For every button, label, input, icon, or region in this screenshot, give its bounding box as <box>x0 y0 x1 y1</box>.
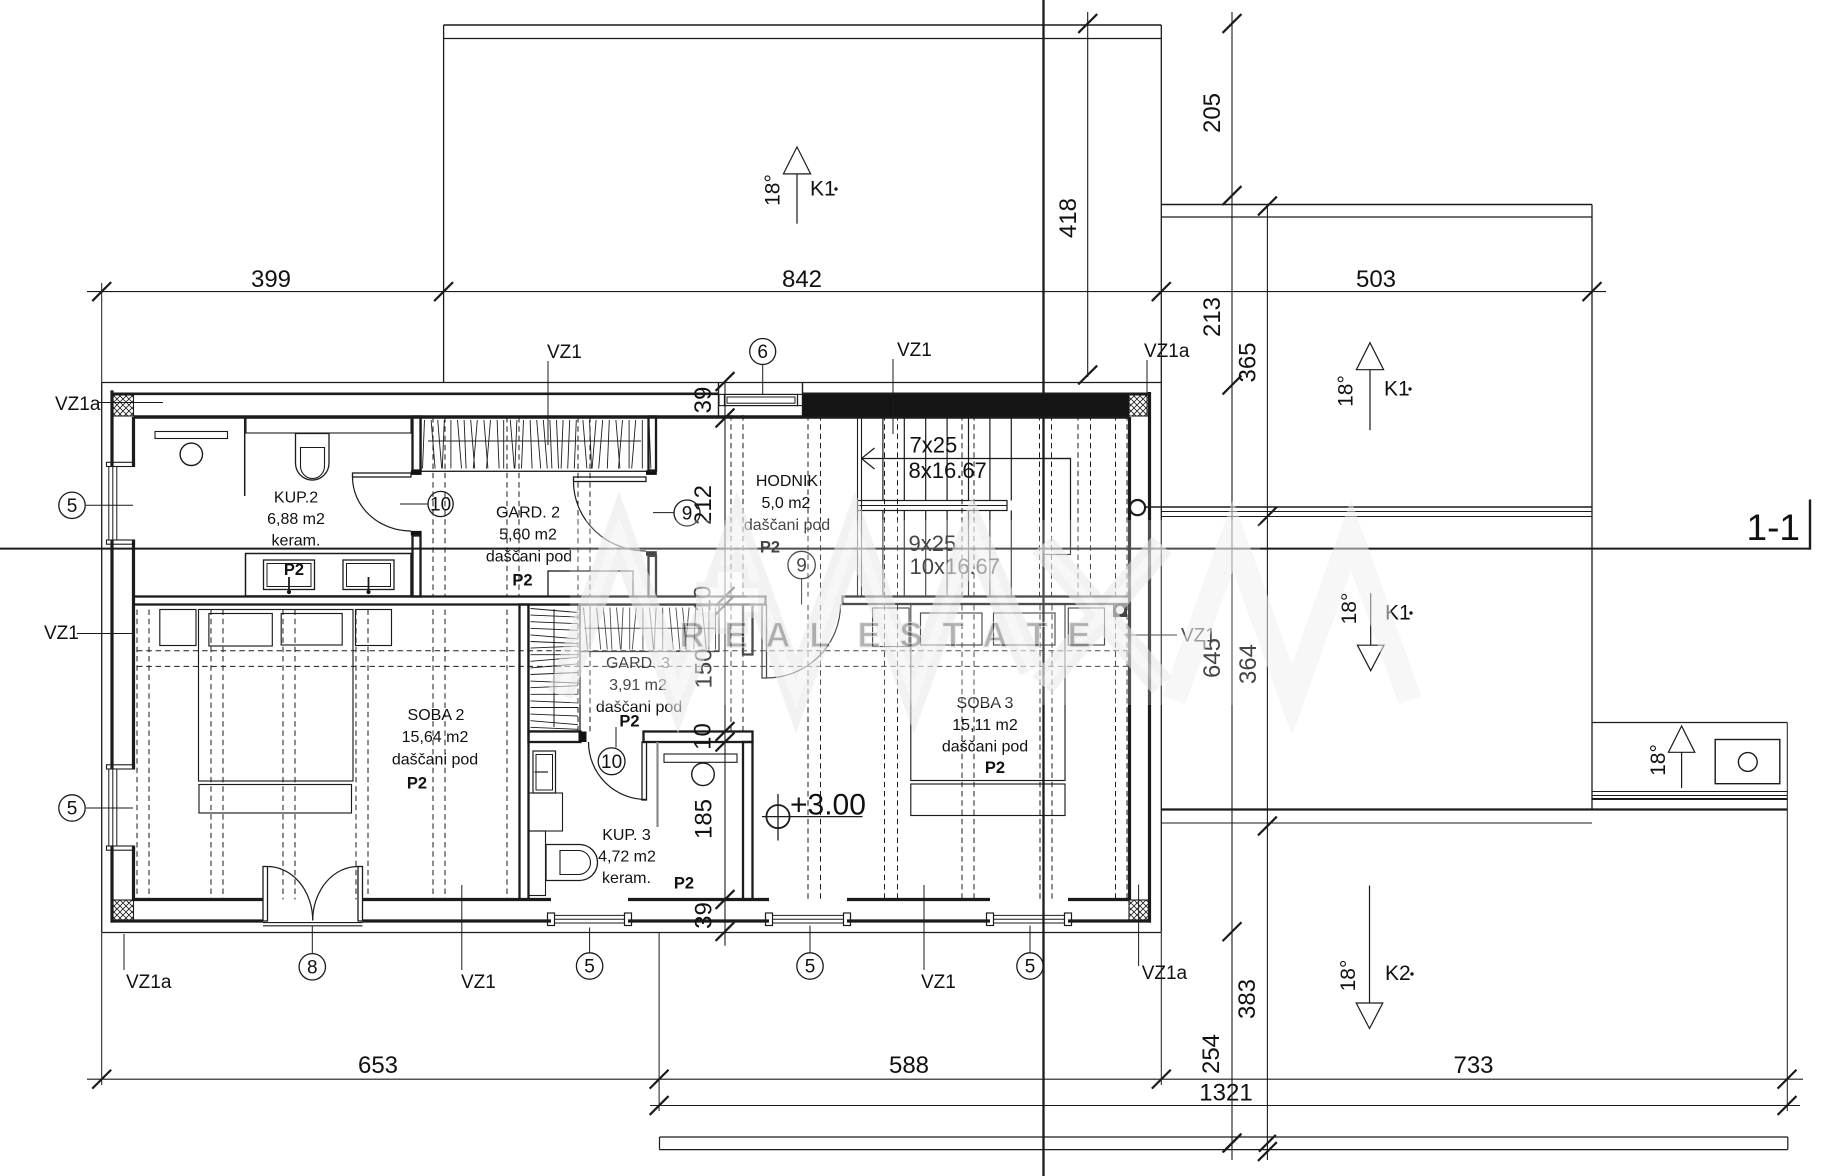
svg-text:VZ1a: VZ1a <box>1142 963 1188 984</box>
svg-text:10: 10 <box>430 495 451 516</box>
window in bottom wall (SOBA 3 right) <box>987 913 994 926</box>
svg-text:39: 39 <box>691 902 718 929</box>
french door sill SOBA 2 <box>263 922 363 924</box>
door GARD.3-KUP.3 leaf <box>642 742 647 800</box>
stairwell side rectangle right of section <box>1044 459 1071 555</box>
KUP.3 basin circle <box>692 763 715 786</box>
svg-text:8x16.67: 8x16.67 <box>909 458 987 483</box>
svg-text:254: 254 <box>1198 1034 1225 1074</box>
wall GARD.2 east lower <box>649 556 657 597</box>
svg-text:503: 503 <box>1356 266 1396 293</box>
svg-text:39: 39 <box>690 387 717 414</box>
top exterior wall inner face <box>134 415 1130 418</box>
KUP.2 toilet <box>296 434 330 481</box>
dimension line top horizontal <box>87 291 1606 293</box>
svg-text:HODNIK: HODNIK <box>756 473 819 490</box>
wall GARD.2 east upper <box>649 417 657 471</box>
svg-text:18°: 18° <box>1335 375 1358 407</box>
svg-text:5: 5 <box>67 799 78 820</box>
corner hatch top-right <box>1129 395 1150 416</box>
roof arrow K1 top rectangle <box>783 147 810 174</box>
svg-text:P2: P2 <box>512 572 532 590</box>
mark 5 bottom window 2 <box>797 953 823 979</box>
watermark logo <box>570 520 1260 705</box>
svg-text:399: 399 <box>251 266 291 293</box>
svg-text:1321: 1321 <box>1199 1080 1252 1107</box>
svg-text:daščani pod: daščani pod <box>942 739 1028 756</box>
chimney box <box>1715 740 1780 784</box>
svg-text:5: 5 <box>805 957 816 978</box>
stair left stringer lines <box>857 417 859 597</box>
svg-text:5: 5 <box>1025 957 1036 978</box>
svg-text:5: 5 <box>67 496 78 517</box>
mark 5 left lower window <box>59 795 85 821</box>
mark 10 door GARD.3 <box>598 748 625 775</box>
svg-text:VZ1: VZ1 <box>897 340 932 361</box>
svg-text:SOBA 2: SOBA 2 <box>408 707 465 724</box>
svg-text:VZ1a: VZ1a <box>55 394 101 415</box>
KUP.2 basin circle <box>180 443 202 465</box>
KUP.2 sink 1 <box>264 560 315 590</box>
svg-text:keram.: keram. <box>602 870 651 887</box>
SOBA2 bed <box>199 610 354 782</box>
right building roof rectangle <box>1161 204 1592 206</box>
mark 10 door KUP.2 <box>428 491 453 516</box>
KUP.3 cistern <box>529 831 546 896</box>
french door right leaf <box>358 867 363 922</box>
SOBA2 pillow 2 <box>281 614 342 646</box>
left exterior wall outer face <box>110 390 113 466</box>
stair lower flight risers <box>882 511 884 597</box>
svg-text:213: 213 <box>1199 297 1226 337</box>
roof outline upper-left large rectangle <box>444 24 1162 26</box>
SOBA3 bed <box>911 605 1065 781</box>
svg-text:T: T <box>1026 616 1047 655</box>
right building south wall lines <box>1146 506 1592 508</box>
svg-text:15,64 m2: 15,64 m2 <box>402 729 469 746</box>
door jamb block KUP.2 upper <box>411 470 422 475</box>
vertical dim line 365/364/383 <box>1266 204 1268 1160</box>
vertical dim line 205/213/645/254 <box>1231 12 1233 1160</box>
bottom exterior wall inner face <box>134 898 264 901</box>
right exterior wall inner face <box>1128 417 1131 900</box>
wall between KUP.2 and GARD.2 lower part <box>413 536 421 597</box>
roof overhang outline of main floor <box>102 382 1162 384</box>
stair upper flight risers <box>882 417 884 501</box>
dashed beam projection lines upper zone <box>432 417 434 597</box>
door KUP.2 swing arc <box>353 477 412 531</box>
mark 5 left upper window <box>59 492 85 518</box>
SOBA2 bench <box>199 785 352 814</box>
svg-text:4,72 m2: 4,72 m2 <box>598 849 656 866</box>
mark 8 french door <box>299 954 325 980</box>
svg-text:VZ1: VZ1 <box>547 342 582 363</box>
svg-text:588: 588 <box>889 1052 929 1079</box>
svg-text:P2: P2 <box>619 713 639 731</box>
SOBA2 nightstand left <box>160 610 196 646</box>
svg-text:VZ1: VZ1 <box>461 972 496 993</box>
SOBA3 bench <box>911 784 1065 816</box>
svg-text:S: S <box>899 616 922 655</box>
svg-text:K2: K2 <box>1385 962 1411 985</box>
svg-text:18°: 18° <box>1337 960 1360 992</box>
svg-text:365: 365 <box>1235 342 1262 382</box>
SOBA2 nightstand right <box>356 610 392 646</box>
SOBA3 pillow 2 <box>994 613 1056 645</box>
closet GARD.2 <box>421 418 656 472</box>
window in left wall lower (SOBA 2) <box>107 765 135 769</box>
right building bottom eave <box>1161 808 1787 810</box>
stair-area top wall solid fill <box>803 395 1130 417</box>
KUP.2 vanity counter <box>246 554 412 597</box>
door GARD.2 leaf <box>574 477 647 482</box>
mark 9 HODNIK <box>788 551 815 578</box>
wall HODNIK south (east of door) <box>843 597 1130 605</box>
door KUP.2 leaf <box>353 473 412 477</box>
right exterior wall outer face <box>1148 392 1151 923</box>
corner hatch bottom-left <box>112 900 134 921</box>
window in left wall upper (KUP.2) <box>107 462 135 466</box>
KUP.3 sink shelf <box>664 754 737 762</box>
svg-text:6: 6 <box>757 342 768 363</box>
bottom eave strip <box>660 1136 1788 1138</box>
mark 6 top window <box>750 339 776 365</box>
svg-text:418: 418 <box>1055 198 1082 238</box>
ticks on bottom eave strip <box>1224 1135 1241 1152</box>
svg-text:R: R <box>679 616 704 655</box>
dimension line 1321 <box>650 1105 1800 1107</box>
svg-text:VZ1a: VZ1a <box>126 972 172 993</box>
mark 9 door GARD.2 <box>674 500 700 526</box>
french door right arc <box>313 866 358 920</box>
SOBA3 pillow 1 <box>921 613 983 645</box>
svg-text:10: 10 <box>690 723 717 750</box>
door jamb GARD.2 lower <box>646 551 657 556</box>
wall band KUP.2+GARD.2 south <box>134 597 766 605</box>
SOBA3 nightstand top <box>873 608 910 647</box>
window 6 in top wall <box>718 383 720 417</box>
stair walking line with arrow <box>862 458 1071 460</box>
vertical dim line 418 <box>1087 12 1089 377</box>
top exterior wall outer face <box>111 392 719 395</box>
svg-text:18°: 18° <box>1647 744 1670 776</box>
KUP.3 washing machine <box>533 751 556 793</box>
door GARD.3-KUP.3 swing arc <box>589 742 647 800</box>
left exterior wall inner face <box>132 417 135 467</box>
svg-text:185: 185 <box>691 799 718 839</box>
door GARD.2 swing arc <box>574 482 647 552</box>
door HODNIK-SOBA3 leaf <box>762 605 767 679</box>
bottom exterior wall outer face <box>111 919 264 922</box>
KUP.3 shower glass line <box>656 742 658 827</box>
svg-text:E: E <box>857 616 880 655</box>
section line 1-1 horizontal <box>0 548 1810 550</box>
svg-text:5,0 m2: 5,0 m2 <box>762 495 811 512</box>
svg-text:212: 212 <box>690 485 717 525</box>
svg-text:VZ1a: VZ1a <box>1144 341 1190 362</box>
window in bottom wall (left of KUP.3) <box>548 913 555 926</box>
svg-text:L: L <box>809 616 830 655</box>
KUP.2 sink 2 <box>343 560 394 590</box>
svg-text:6,88 m2: 6,88 m2 <box>267 511 325 528</box>
dashed horizontal pair <box>137 650 1128 652</box>
svg-text:daščani pod: daščani pod <box>392 752 478 769</box>
svg-text:5: 5 <box>584 957 595 978</box>
svg-text:+3.00: +3.00 <box>790 789 866 822</box>
svg-text:7x25: 7x25 <box>910 433 958 458</box>
mark 5 bottom window 1 <box>576 953 602 979</box>
door HODNIK-SOBA3 swing arc <box>767 605 841 679</box>
svg-text:GARD. 2: GARD. 2 <box>496 505 560 522</box>
wall KUP.3 east <box>743 742 753 900</box>
svg-text:15,11 m2: 15,11 m2 <box>952 717 1018 734</box>
svg-text:205: 205 <box>1199 93 1226 133</box>
svg-text:E: E <box>724 616 747 655</box>
svg-text:VZ1: VZ1 <box>921 972 956 993</box>
svg-text:VZ1: VZ1 <box>44 623 79 644</box>
french door left leaf <box>263 867 268 922</box>
svg-text:P2: P2 <box>284 561 304 579</box>
dashed beam projection lines lower zone <box>136 610 138 900</box>
svg-text:5,60 m2: 5,60 m2 <box>499 527 557 544</box>
pipe circle on right wall <box>1130 500 1145 515</box>
roof arrow K1 right building upper <box>1356 343 1383 370</box>
SOBA3 nightstand bottom <box>1068 608 1104 645</box>
roof arrow K2 <box>1369 886 1371 1004</box>
svg-text:8: 8 <box>307 957 318 978</box>
closet GARD.3 left <box>528 605 580 731</box>
svg-text:E: E <box>1067 616 1090 655</box>
svg-text:653: 653 <box>358 1052 398 1079</box>
wall between KUP.2 and GARD.2 upper part <box>413 417 421 471</box>
svg-text:K1: K1 <box>1384 378 1410 401</box>
chimney area 18 deg arrow <box>1668 726 1694 752</box>
KUP.2 mirror <box>155 432 228 439</box>
corner hatch bottom-right <box>1129 900 1150 921</box>
KUP.3 toilet <box>546 845 598 881</box>
mark 5 bottom window 3 <box>1017 953 1043 979</box>
svg-text:P2: P2 <box>674 875 694 893</box>
level mark +3.00 <box>766 805 789 828</box>
terrace / annex outline right <box>1592 722 1787 724</box>
dimension line bottom horizontal <box>87 1078 1803 1080</box>
svg-text:733: 733 <box>1453 1052 1493 1079</box>
SOBA3 corner lamp symbol <box>1113 604 1127 618</box>
section line vertical <box>1042 0 1044 1176</box>
extension lines bottom <box>101 933 103 1085</box>
KUP.3 counter <box>529 793 563 831</box>
svg-text:KUP. 3: KUP. 3 <box>602 827 651 844</box>
svg-text:A: A <box>765 616 790 655</box>
svg-text:18°: 18° <box>1338 593 1361 625</box>
svg-text:T: T <box>942 616 963 655</box>
vertical dim line wall chain x=725 <box>724 383 726 946</box>
svg-text:18°: 18° <box>762 174 785 206</box>
svg-text:K1: K1 <box>810 178 836 201</box>
wall GARD.3 south west part <box>529 732 581 743</box>
svg-text:383: 383 <box>1234 979 1261 1019</box>
SOBA2 pillow 1 <box>209 614 272 647</box>
door jamb GARD.3 left <box>579 732 587 743</box>
svg-text:KUP.2: KUP.2 <box>274 490 318 507</box>
svg-text:P2: P2 <box>407 775 427 793</box>
extension line left top <box>101 283 103 383</box>
svg-text:842: 842 <box>782 266 822 293</box>
corner hatch top-left <box>112 395 134 416</box>
svg-text:keram.: keram. <box>272 533 321 550</box>
KUP.2 counter ledge <box>246 418 411 433</box>
door jamb GARD.3 right / wall GARD.3 south east part <box>644 732 753 743</box>
french door left arc <box>268 867 313 921</box>
svg-text:daščani pod: daščani pod <box>486 549 572 566</box>
door jamb block KUP.2 lower <box>411 531 422 536</box>
dresser GARD.2 <box>548 571 633 596</box>
door jamb GARD.2 upper <box>646 470 657 475</box>
closet GARD.3 top <box>580 605 719 652</box>
window in bottom wall (SOBA 3 left) <box>766 913 773 926</box>
roof edge right long vertical <box>1160 25 1162 933</box>
svg-text:10: 10 <box>601 752 622 773</box>
stair landing handrail <box>858 501 1008 511</box>
KUP.2 divider line <box>244 418 246 496</box>
roof arrow K1 right building lower <box>1370 593 1372 645</box>
svg-text:A: A <box>982 616 1007 655</box>
svg-text:P2: P2 <box>985 759 1005 777</box>
svg-text:1-1: 1-1 <box>1747 507 1800 548</box>
wall GARD.3 east stub <box>743 605 753 655</box>
wall SOBA2/KUP.3 boundary <box>520 605 529 900</box>
